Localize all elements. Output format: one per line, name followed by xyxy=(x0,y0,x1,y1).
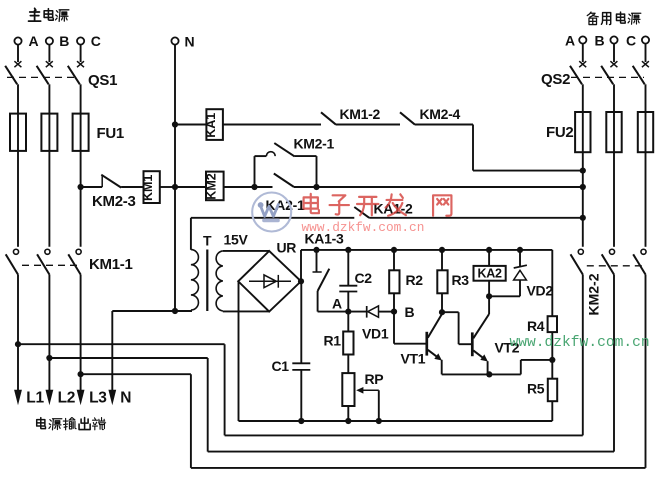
wire KM2-2 pole B down xyxy=(613,275,615,452)
svg-text:R3: R3 xyxy=(452,272,470,288)
wire DC- bottom rail xyxy=(239,420,553,422)
svg-text:L1: L1 xyxy=(26,390,44,407)
wire KM1 coil to N node xyxy=(160,186,175,188)
wire KM2-2 pole C down xyxy=(645,275,647,468)
node L2 feedback tap xyxy=(46,355,52,361)
wire KM2-3 to KM1 coil xyxy=(121,186,143,188)
bridge inner diode xyxy=(249,280,291,282)
node L1 feedback tap xyxy=(15,341,21,347)
terminal N xyxy=(171,37,178,44)
svg-text:15V: 15V xyxy=(224,232,249,248)
svg-text:QS1: QS1 xyxy=(88,72,117,89)
contactor contact KM1-1 pole B xyxy=(45,249,50,254)
node KM2-1 branch right xyxy=(313,184,319,190)
svg-text:VD1: VD1 xyxy=(362,326,389,342)
wire phase A FU1 to KM1-1 xyxy=(17,151,19,247)
node backup phase A / KA1 line xyxy=(580,168,586,174)
svg-text:R2: R2 xyxy=(406,272,424,288)
switch QS2 pole A xyxy=(579,61,586,67)
switch QS1 pole C xyxy=(77,61,84,67)
wire N drop to output xyxy=(111,311,113,390)
contact KM2-3 (NC) from phase C xyxy=(81,186,103,188)
terminal A (backup) xyxy=(579,36,586,43)
wire phase C to FU1 xyxy=(80,84,82,113)
svg-text:KA2: KA2 xyxy=(478,267,502,281)
svg-text:A: A xyxy=(29,33,39,49)
wire phase B KM1-1 to output L2 xyxy=(48,275,50,391)
wire DC+ top rail xyxy=(301,249,552,251)
terminal A (main) xyxy=(14,37,21,44)
resistor R2 xyxy=(393,250,395,270)
svg-text:QS2: QS2 xyxy=(541,71,570,88)
contact KA2-1 (NO) xyxy=(274,174,294,188)
transformer T primary winding xyxy=(191,250,199,310)
terminal B (backup) xyxy=(610,36,617,43)
svg-text:R1: R1 xyxy=(324,333,342,349)
transformer secondary winding xyxy=(216,251,223,311)
wire L2 feedback bus xyxy=(49,357,207,359)
svg-text:RP: RP xyxy=(365,371,384,387)
potentiometer RP xyxy=(342,373,354,406)
svg-text:B: B xyxy=(59,33,69,49)
relay coil KA2 xyxy=(488,250,490,266)
wire KM1-2 to KM2-4 xyxy=(336,124,400,126)
contactor contact KM2-2 pole A xyxy=(578,249,583,254)
svg-text:KM2: KM2 xyxy=(204,173,218,199)
node N / KA1 line xyxy=(172,121,178,127)
relay coil KA1 xyxy=(206,109,223,140)
switch QS1 pole B xyxy=(46,61,53,67)
output arrow L2 xyxy=(46,390,54,406)
wire N node to KA1 coil xyxy=(175,124,206,126)
wire phase A to FU1 xyxy=(17,84,19,113)
svg-text:C: C xyxy=(626,33,636,49)
terminal C (main) xyxy=(77,37,84,44)
svg-text:A: A xyxy=(565,33,575,49)
label backup power 备用电源 xyxy=(587,12,598,24)
resistor R1 xyxy=(347,312,349,332)
wire backup phase B down xyxy=(613,152,615,247)
svg-text:L3: L3 xyxy=(89,390,107,407)
contactor contact KM2-2 pole C xyxy=(641,249,646,254)
contactor coil KM1 xyxy=(144,171,160,203)
wire backup phase C down xyxy=(645,152,647,247)
wire phase A KM1-1 to output L1 xyxy=(17,275,19,391)
node N / transformer primary xyxy=(172,308,178,314)
node VT2 collector / KA2 / VD2 xyxy=(486,293,492,299)
KM1-1 linkage dashed line xyxy=(22,264,79,266)
svg-text:KM2-2: KM2-2 xyxy=(586,273,602,315)
zener diode VD2 xyxy=(519,250,521,267)
svg-text:T: T xyxy=(203,233,212,249)
wire VT2 collector to KA2 xyxy=(488,296,490,314)
transistor VT2 xyxy=(471,332,474,356)
wire KM2 coil to KA2-1 xyxy=(224,186,273,188)
wire node B to VT1 base xyxy=(393,312,395,344)
wire KA1-2 to backup phase A xyxy=(369,217,583,219)
svg-text:KM2-3: KM2-3 xyxy=(92,193,136,210)
svg-text:VT1: VT1 xyxy=(401,351,426,367)
svg-text:C: C xyxy=(91,33,101,49)
capacitor C2 xyxy=(347,250,349,286)
svg-text:www.dzkfw.com.cn: www.dzkfw.com.cn xyxy=(302,220,425,235)
watermark logo circle xyxy=(252,193,291,232)
svg-text:FU1: FU1 xyxy=(97,125,124,142)
svg-text:FU2: FU2 xyxy=(546,124,573,141)
node bridge DC+ vertex xyxy=(298,278,304,284)
svg-text:KA1: KA1 xyxy=(204,113,218,138)
fuse FU1 pole A xyxy=(10,114,26,151)
wire backup B to FU2 xyxy=(613,84,615,112)
capacitor C1 xyxy=(300,281,302,363)
terminal C (backup) xyxy=(642,36,649,43)
terminal B (main) xyxy=(46,37,53,44)
svg-text:KM2-4: KM2-4 xyxy=(420,106,461,122)
transistor VT1 xyxy=(425,332,428,356)
bridge rectifier UR diamond xyxy=(238,251,301,312)
diode VD1 xyxy=(348,311,366,313)
contact KM1-2 (NO) xyxy=(321,112,336,124)
switch QS2 pole B xyxy=(610,61,617,67)
wire L3 feedback bus xyxy=(81,373,191,375)
contactor coil KM2 xyxy=(206,172,224,201)
contact KA1-2 (NO) xyxy=(354,207,369,218)
node KM2-1 branch left xyxy=(251,184,257,190)
wire phase C KM1-1 to output L3 xyxy=(80,275,82,391)
svg-text:KM2-1: KM2-1 xyxy=(294,136,335,152)
resistor R4 xyxy=(551,250,553,316)
KM2-2 linkage dashed line xyxy=(587,265,644,267)
fuse FU1 pole B xyxy=(41,114,57,151)
fuse FU1 pole C xyxy=(73,114,89,151)
svg-text:C2: C2 xyxy=(355,270,373,286)
contact KA1-3 (NC) from rail xyxy=(316,250,318,272)
contactor contact KM1-1 pole A xyxy=(13,249,18,254)
wire N vertical xyxy=(174,45,176,311)
node L3 feedback tap xyxy=(78,371,84,377)
wire phase C FU1 to KM1-1, junction at KM2-3 tap xyxy=(80,151,82,247)
wire transformer top to KA1-2 xyxy=(191,217,354,219)
node B xyxy=(391,309,397,315)
wire backup A to FU2 xyxy=(582,84,584,112)
node emitter bus xyxy=(486,371,492,377)
contact KM2-1 (NO aux, parallel branch) xyxy=(254,156,256,187)
transformer core xyxy=(206,250,208,312)
wire KA1 coil to KM1-2 xyxy=(223,124,321,126)
wire KA2 node to VD2 xyxy=(489,295,520,297)
svg-text:A: A xyxy=(332,296,342,312)
wire emitter bus to R4/R5 node xyxy=(489,373,521,375)
node backup phase A / coil line xyxy=(580,184,586,190)
svg-text:L2: L2 xyxy=(58,390,76,407)
svg-text:VD2: VD2 xyxy=(527,283,554,299)
svg-text:www.dzkfw.com.cn: www.dzkfw.com.cn xyxy=(510,335,650,351)
resistor R5 xyxy=(551,360,553,379)
wire KA2-1 to backup phase A xyxy=(294,186,583,188)
output arrow L1 xyxy=(14,390,22,406)
svg-text:C1: C1 xyxy=(272,358,290,374)
contactor contact KM2-2 pole B xyxy=(609,249,614,254)
wire KM2-4 to backup phase A xyxy=(415,124,473,126)
wire KM2-2 pole A down xyxy=(582,275,584,436)
fuse FU2 pole A xyxy=(575,112,590,152)
svg-text:N: N xyxy=(185,34,195,50)
contactor contact KM1-1 pole C xyxy=(76,249,81,254)
resistor R3 xyxy=(441,250,443,270)
QS2 linkage dashed line xyxy=(571,76,644,78)
fuse FU2 pole C xyxy=(638,112,653,152)
wire backup C to FU2 xyxy=(645,84,647,112)
output arrow N xyxy=(108,390,116,406)
node A xyxy=(345,309,351,315)
svg-text:B: B xyxy=(405,304,415,320)
wire secondary bottom to bridge xyxy=(222,310,224,313)
wire bridge DC- drop xyxy=(238,281,240,421)
label 电源输出端 power output terminal xyxy=(37,418,46,429)
switch QS2 pole C xyxy=(642,61,649,67)
svg-text:R4: R4 xyxy=(527,318,545,334)
svg-text:KM1: KM1 xyxy=(141,175,155,201)
svg-text:R5: R5 xyxy=(527,381,545,397)
wire N to primary bottom xyxy=(112,310,192,312)
wire L1 feedback bus xyxy=(18,343,225,345)
QS1 linkage dashed line xyxy=(7,76,79,78)
wire phase B FU1 to KM1-1 xyxy=(48,151,50,247)
svg-text:KM1-2: KM1-2 xyxy=(340,106,381,122)
svg-text:UR: UR xyxy=(277,240,297,256)
switch QS1 pole A xyxy=(14,61,21,67)
svg-text:B: B xyxy=(595,33,605,49)
fuse FU2 pole B xyxy=(606,112,621,152)
watermark red text 电子开发网 xyxy=(304,194,319,213)
label main power 主电源 xyxy=(29,8,41,21)
node VT1 collector / R3 xyxy=(439,309,445,315)
svg-text:KM1-1: KM1-1 xyxy=(89,256,133,273)
wire backup phase A down with control taps xyxy=(582,152,584,247)
wire KA1-3 to node A xyxy=(318,311,349,313)
node phase C / KM2-3 tap xyxy=(78,184,84,190)
wire VT2 emitter to emitter bus xyxy=(487,361,489,374)
wire bridge DC+ riser to rail xyxy=(300,250,302,281)
wire phase B to FU1 xyxy=(48,84,50,113)
wire N node to KM2 coil xyxy=(175,186,206,188)
wire VT1 emitter to emitter bus xyxy=(441,360,443,375)
node N / coil line xyxy=(172,184,178,190)
contact KM2-4 (NO) xyxy=(400,112,415,124)
node R4/R5 xyxy=(549,357,555,363)
wire secondary top to bridge xyxy=(223,250,269,252)
output arrow L3 xyxy=(77,390,85,406)
node backup phase A / KA1-2 line xyxy=(580,215,586,221)
wire VT1 collector to VT2 base xyxy=(442,311,459,313)
svg-text:N: N xyxy=(120,390,131,407)
